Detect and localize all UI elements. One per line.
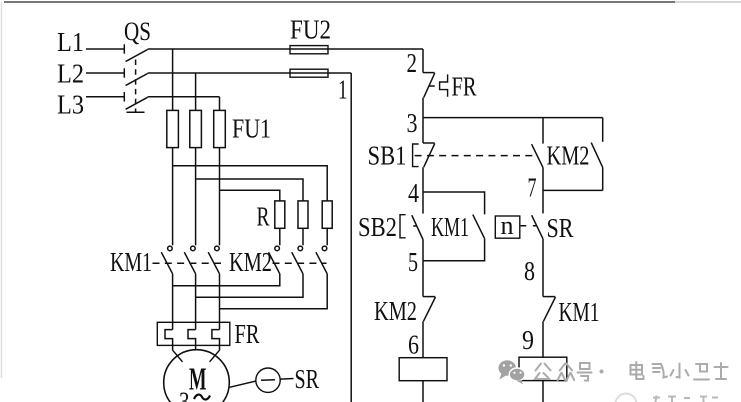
contactor KM2 pole1 bbox=[269, 246, 280, 274]
contactor KM1 linkage dashed bbox=[153, 262, 222, 264]
wire KM2 pole2 return bbox=[196, 274, 303, 298]
switch QS pole 1 bbox=[124, 44, 147, 61]
thermal relay FR element1 bbox=[165, 330, 173, 351]
relay n box bbox=[495, 211, 520, 240]
contact SR (NO) bbox=[532, 215, 543, 239]
wire node2-3 bbox=[422, 98, 424, 118]
svg-text:6: 6 bbox=[408, 330, 419, 360]
svg-text:KM1: KM1 bbox=[431, 212, 469, 242]
watermark text 公众号·电气小卫士 bbox=[535, 362, 728, 381]
wire branch to R3 bbox=[173, 166, 328, 201]
switch QS pole 3 bbox=[124, 92, 147, 109]
wire KM2nc-coil bbox=[422, 321, 424, 358]
svg-text:FU1: FU1 bbox=[232, 114, 271, 144]
thermal relay FR element3 bbox=[212, 330, 220, 351]
fuse FU1 pole1 bbox=[167, 110, 179, 147]
contact KM1 (NC) bbox=[543, 297, 556, 322]
button SB2 (NO) bbox=[400, 215, 423, 240]
fuse FU1 pole3 bbox=[214, 110, 226, 147]
thermal contact FR (NC) bbox=[423, 73, 448, 98]
wire SB1-node4 bbox=[422, 167, 424, 192]
resistor R2 bbox=[298, 201, 308, 228]
contactor KM1 pole3 bbox=[208, 246, 219, 274]
wire phase3 vertical bbox=[219, 148, 221, 246]
wire rail 1 bbox=[350, 73, 352, 402]
thermal relay FR box bbox=[157, 322, 230, 345]
contactor KM2 pole2 bbox=[292, 246, 303, 274]
wire L1 incoming bbox=[86, 48, 124, 50]
svg-text:KM2: KM2 bbox=[229, 247, 272, 277]
contactor KM1 pole2 bbox=[184, 246, 195, 274]
coil KM2 bbox=[519, 357, 567, 380]
svg-text:4: 4 bbox=[408, 178, 419, 208]
switch QS pole 2 bbox=[124, 68, 147, 85]
motor M circle bbox=[164, 350, 230, 402]
wire phase3 drop bbox=[219, 97, 221, 111]
watermark partial bottom row bbox=[616, 394, 719, 402]
contact KM1 aux (NO) bbox=[473, 215, 485, 239]
svg-text:7: 7 bbox=[528, 172, 537, 202]
svg-text:8: 8 bbox=[524, 256, 535, 286]
wire motor lead1 bbox=[173, 350, 183, 362]
wire phase1 drop bbox=[172, 49, 174, 110]
wire L3 incoming bbox=[86, 96, 124, 98]
resistor R3 bbox=[322, 201, 332, 228]
svg-text:SR: SR bbox=[295, 364, 320, 394]
resistor R1 bbox=[275, 201, 285, 228]
wire KM1nc-coil2 bbox=[542, 321, 544, 357]
svg-text:L3: L3 bbox=[57, 90, 84, 120]
contact KM2 aux left (NO) bbox=[532, 118, 543, 191]
wire node4-SB2 bbox=[422, 192, 424, 214]
linkage SB1-KM2 dashed bbox=[415, 155, 534, 157]
wire coil1 bottom bbox=[422, 381, 424, 402]
wire L2 bus bbox=[148, 72, 352, 74]
wire KM2 pole1 return bbox=[173, 274, 280, 286]
contactor KM2 pole3 bbox=[316, 246, 327, 274]
wire node3 bus bbox=[423, 117, 603, 119]
wire KM2 pole3 return bbox=[220, 274, 328, 309]
svg-text:1: 1 bbox=[338, 75, 348, 105]
wire node3-SB1 bbox=[422, 118, 424, 143]
wire phase1 vertical bbox=[172, 148, 174, 246]
wire phase2 drop bbox=[195, 73, 197, 110]
wire L1 bus to control bbox=[148, 48, 423, 50]
wire SR-KM1nc bbox=[542, 239, 544, 297]
wire KM1 pole3 down bbox=[219, 274, 221, 330]
contact KM2 aux right (NO) bbox=[591, 118, 603, 191]
wire KM1 pole2 down bbox=[195, 274, 197, 330]
svg-text:FR: FR bbox=[235, 319, 260, 349]
contactor KM1 pole1 bbox=[161, 246, 172, 274]
fuse FU2 upper bbox=[290, 46, 328, 54]
svg-text:KM1: KM1 bbox=[559, 297, 600, 327]
svg-text:M: M bbox=[189, 361, 207, 397]
watermark logo wechat bbox=[498, 360, 525, 384]
wire motor lead3 bbox=[210, 350, 220, 362]
wire coil2 bottom bbox=[542, 381, 544, 402]
svg-text:n: n bbox=[501, 211, 514, 240]
svg-text:KM2: KM2 bbox=[374, 296, 417, 326]
fuse FU1 pole2 bbox=[190, 110, 202, 147]
svg-text:KM1: KM1 bbox=[110, 247, 152, 277]
wire R3 stub bbox=[326, 228, 328, 245]
speed relay SR link bbox=[230, 368, 294, 392]
wire node7-SR bbox=[542, 190, 544, 213]
wire SB2-node5 bbox=[422, 240, 424, 261]
wire R1 stub bbox=[279, 228, 281, 245]
svg-text:FU2: FU2 bbox=[290, 15, 331, 45]
svg-text:KM2: KM2 bbox=[547, 141, 590, 171]
svg-text:SB2: SB2 bbox=[358, 212, 397, 242]
svg-text:SB1: SB1 bbox=[368, 141, 407, 171]
svg-text:SR: SR bbox=[547, 213, 574, 243]
svg-text:R: R bbox=[257, 202, 270, 232]
svg-text:2: 2 bbox=[407, 48, 418, 78]
svg-text:L2: L2 bbox=[57, 59, 84, 89]
wire L2 incoming bbox=[86, 72, 124, 74]
wire L3 bus bbox=[148, 96, 220, 98]
svg-text:3: 3 bbox=[407, 108, 418, 138]
switch QS linkage dashed bbox=[127, 60, 145, 113]
wire branch to R2 bbox=[196, 179, 303, 201]
svg-text:5: 5 bbox=[408, 247, 418, 277]
wire node4 branch bbox=[423, 192, 485, 214]
svg-text:3: 3 bbox=[179, 387, 190, 402]
wire KM1 aux bottom bbox=[423, 239, 485, 261]
wire control rail top bbox=[422, 49, 424, 73]
svg-text:L1: L1 bbox=[57, 27, 84, 57]
contactor KM2 linkage dashed bbox=[273, 262, 327, 264]
wire branch to R1 bbox=[220, 190, 280, 201]
wire KM1 pole1 down bbox=[172, 274, 174, 330]
wire node7 bus bbox=[543, 189, 603, 191]
coil KM1 bbox=[399, 358, 447, 381]
svg-text:9: 9 bbox=[522, 325, 534, 355]
left border line bbox=[1, 2, 3, 378]
svg-text:FR: FR bbox=[452, 72, 477, 102]
svg-text:QS: QS bbox=[124, 17, 151, 46]
wire node5-KM2nc bbox=[422, 261, 424, 297]
fuse FU2 lower bbox=[290, 69, 328, 77]
top border line bbox=[4, 1, 741, 3]
wire phase2 vertical bbox=[195, 148, 197, 246]
contact KM2 (NC) bbox=[423, 297, 436, 322]
linkage n-SR dashed bbox=[521, 225, 537, 227]
button SB1 (NC) bbox=[413, 143, 435, 167]
wire R2 stub bbox=[302, 228, 304, 245]
thermal relay FR element2 bbox=[188, 330, 196, 350]
